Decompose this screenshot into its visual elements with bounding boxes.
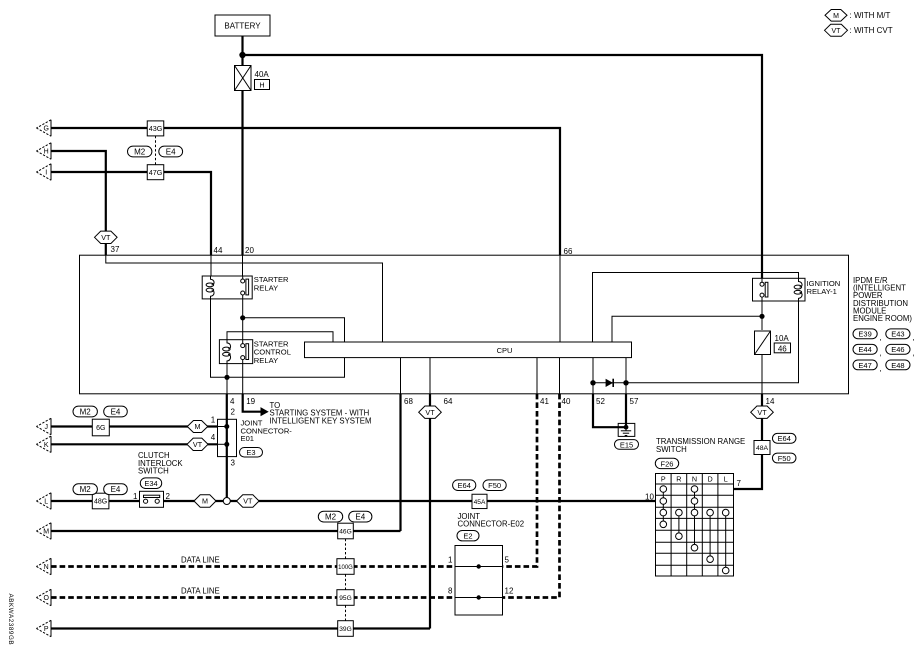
dashed splice chain 46G-100G-95G-39G (345, 539, 347, 621)
svg-text:8: 8 (448, 587, 453, 596)
dashed link 43G-47G (155, 136, 157, 165)
svg-text:95G: 95G (339, 595, 351, 602)
transmission range switch label (656, 437, 745, 454)
IPDM E/R label (853, 276, 912, 323)
svg-text:N: N (44, 564, 49, 571)
svg-text:VT: VT (425, 408, 435, 417)
connector E39 (853, 329, 882, 342)
svg-text:1: 1 (133, 492, 138, 501)
splice 6G (92, 419, 109, 436)
grid contact links (663, 489, 725, 571)
connector arrow L (36, 493, 51, 509)
grid contacts L column (722, 509, 729, 574)
connector E64 (453, 480, 476, 491)
svg-text:E3: E3 (246, 448, 255, 457)
connector arrow O (36, 589, 51, 605)
wire ignition relay coil top box (593, 273, 799, 343)
transmission range switch grid (656, 474, 734, 577)
joint connector E01 (218, 419, 293, 457)
svg-text:P: P (661, 475, 666, 484)
wire starter control relay coil top to CPU (227, 332, 333, 342)
hexagon VT on L wire (237, 495, 259, 507)
svg-text:VT: VT (101, 233, 111, 242)
hexagon M on L wire (194, 495, 216, 507)
svg-text:VT: VT (832, 28, 842, 35)
svg-text:19: 19 (246, 397, 255, 406)
svg-text:M: M (43, 529, 49, 536)
svg-text:SWITCH: SWITCH (656, 445, 687, 454)
connector E2 (457, 531, 479, 541)
connector E15 (615, 440, 639, 450)
connector F50 (772, 453, 796, 463)
hexagon VT on K wire (187, 438, 208, 450)
svg-text:RELAY: RELAY (254, 284, 278, 293)
connector arrow J (36, 418, 51, 434)
connector arrow I (36, 164, 51, 180)
svg-text:ENGINE ROOM): ENGINE ROOM) (853, 314, 912, 323)
grid contacts D column (707, 509, 714, 562)
diode (590, 379, 628, 387)
wire J row (51, 416, 227, 427)
wire pin 41 dashed to E02 pin 5 (503, 358, 550, 567)
svg-text:J: J (44, 424, 48, 431)
svg-text:6G: 6G (96, 425, 105, 432)
splice 48G (92, 493, 109, 509)
wire ignition relay coil bottom to diode node (626, 301, 799, 383)
svg-text:M2: M2 (325, 513, 337, 522)
wire pin 14 to transmission range switch pin 7 (734, 355, 775, 490)
connector F50 (483, 480, 506, 491)
svg-text:H: H (44, 149, 49, 156)
connector arrow M (36, 523, 51, 539)
svg-text:46: 46 (778, 344, 787, 353)
svg-text:43G: 43G (149, 124, 163, 133)
svg-text:M: M (833, 13, 839, 20)
splice 43G (147, 121, 164, 136)
IPDM E/R outer box (80, 255, 849, 394)
wire pin 52 to ground (593, 358, 626, 428)
connector E4 (104, 406, 128, 417)
connector arrow H (36, 143, 51, 159)
hexagon VT on H wire (95, 231, 118, 243)
connector M2 (73, 406, 97, 417)
svg-text:47G: 47G (149, 168, 163, 177)
svg-text:10: 10 (645, 492, 654, 501)
svg-text:P: P (44, 626, 49, 633)
fuse 10A 46 (755, 331, 791, 355)
CPU (305, 342, 632, 358)
wire ignition relay contact to CPU and fuse (612, 301, 765, 342)
legend VT hexagon : WITH CVT (825, 24, 893, 36)
svg-text:DATA LINE: DATA LINE (181, 556, 220, 565)
wire K row (51, 433, 227, 444)
svg-text:14: 14 (766, 397, 775, 406)
svg-text:44: 44 (214, 246, 223, 255)
svg-text:,: , (880, 364, 882, 373)
wire pin 19 to starting system (243, 394, 372, 426)
clutch interlock switch (133, 451, 183, 507)
svg-text:CPU: CPU (497, 346, 513, 355)
splice 48A (754, 441, 770, 455)
wire battery positive bus (239, 36, 762, 278)
svg-text:E39: E39 (858, 330, 871, 339)
svg-text:F50: F50 (488, 481, 501, 490)
battery (215, 15, 270, 36)
svg-text:M: M (195, 422, 201, 431)
wire starter relay contact to node (240, 299, 245, 343)
svg-text:64: 64 (444, 397, 453, 406)
wire node loop to starter relay coil (211, 299, 345, 377)
svg-text:VT: VT (757, 408, 767, 417)
splice 47G (147, 165, 164, 180)
svg-text:40A: 40A (255, 70, 270, 79)
svg-text:37: 37 (111, 245, 120, 254)
connector M2 (318, 511, 342, 522)
svg-text:2: 2 (166, 492, 171, 501)
wire pin 57 to ground (626, 358, 639, 428)
svg-text:48G: 48G (94, 499, 107, 506)
connector arrow K (36, 436, 51, 452)
svg-text:F50: F50 (778, 454, 791, 463)
svg-text:7: 7 (737, 479, 742, 488)
svg-text:: WITH M/T: : WITH M/T (850, 11, 891, 20)
svg-text:CONNECTOR-E02: CONNECTOR-E02 (458, 520, 525, 529)
svg-text:E64: E64 (458, 481, 471, 490)
starter control relay (219, 339, 291, 365)
grid contacts N column (691, 486, 698, 551)
svg-text:M2: M2 (134, 147, 146, 156)
svg-text:DATA LINE: DATA LINE (181, 587, 220, 596)
wire pin 40 dashed to E02 pin 12 (503, 358, 571, 598)
ignition relay (753, 278, 841, 301)
svg-text:R: R (676, 475, 681, 484)
hexagon VT on 14 wire (751, 406, 774, 418)
wire starter control relay contact to pin 19 (242, 364, 244, 394)
svg-text:68: 68 (404, 397, 413, 406)
wire pin 4 to E01 pin 2 (227, 394, 236, 420)
splice 39G (338, 621, 354, 637)
svg-text:4: 4 (211, 433, 216, 442)
svg-text:41: 41 (540, 397, 549, 406)
hexagon VT on 64 wire (419, 406, 442, 418)
svg-text:39G: 39G (339, 626, 351, 633)
wire H row to VT node 37 (51, 151, 383, 342)
splice 45A (472, 494, 487, 508)
wire starter control relay coil to pin 4 (224, 364, 229, 394)
svg-text:2: 2 (231, 408, 236, 417)
svg-text:RELAY-1: RELAY-1 (807, 287, 837, 296)
svg-text:SWITCH: SWITCH (138, 467, 169, 476)
svg-text:M2: M2 (80, 407, 92, 416)
svg-text:: WITH CVT: : WITH CVT (850, 26, 893, 35)
connector arrow G (36, 120, 51, 136)
svg-text:10A: 10A (775, 334, 790, 343)
svg-text:E4: E4 (166, 147, 176, 156)
wire M row to pin 68 (51, 530, 401, 532)
svg-text:L: L (44, 499, 48, 506)
svg-text:46G: 46G (339, 529, 351, 536)
svg-text:VT: VT (243, 497, 253, 506)
grid contacts R column (676, 509, 683, 539)
svg-text:E46: E46 (891, 345, 904, 354)
starter relay (202, 275, 289, 299)
svg-text:,: , (912, 349, 914, 358)
svg-text:BATTERY: BATTERY (224, 22, 261, 31)
svg-text:57: 57 (630, 397, 639, 406)
wire pin 68 from M row (401, 358, 414, 531)
connector E46 (886, 344, 915, 357)
connector E64 (772, 433, 796, 443)
wire E01 pin 3 (227, 457, 236, 498)
svg-text:20: 20 (245, 246, 254, 255)
svg-text:RELAY: RELAY (254, 356, 278, 365)
connector E47 (853, 360, 882, 373)
svg-text:E4: E4 (111, 407, 121, 416)
svg-text:E44: E44 (858, 345, 871, 354)
wire P row to pin 64 (51, 627, 430, 629)
svg-text:ABKWA2389GB: ABKWA2389GB (7, 594, 14, 646)
connector E3 (240, 448, 263, 458)
svg-text:G: G (43, 126, 48, 133)
wire 20 : fusible link to starter relay contact (243, 91, 255, 277)
hexagon M on J wire (187, 421, 208, 433)
svg-text:H: H (259, 83, 264, 90)
svg-text:E2: E2 (463, 532, 472, 541)
connector M2 (128, 146, 152, 157)
joint connector E02 (448, 512, 524, 615)
svg-text:O: O (43, 595, 49, 602)
svg-text:M2: M2 (80, 485, 92, 494)
connector M2 (73, 484, 97, 495)
svg-text:5: 5 (505, 556, 510, 565)
wire pin 64 VT to P row (430, 358, 453, 629)
wire N row data line (51, 556, 455, 567)
wire O row data line (51, 587, 455, 598)
svg-text:N: N (692, 475, 697, 484)
legend M hexagon : WITH M/T (825, 10, 890, 22)
svg-text:L: L (724, 475, 728, 484)
svg-text:,: , (912, 333, 914, 342)
svg-text:E15: E15 (620, 440, 633, 449)
svg-text:100G: 100G (338, 565, 353, 571)
svg-text:E43: E43 (891, 330, 904, 339)
connector E4 (349, 511, 372, 522)
svg-text:48A: 48A (756, 445, 769, 452)
svg-text:E01: E01 (241, 434, 255, 443)
svg-text:1: 1 (211, 416, 216, 425)
svg-text:E47: E47 (858, 361, 871, 370)
splice 95G (337, 590, 354, 606)
wire L row to grid pin 10 (51, 492, 656, 501)
splice 100G (337, 559, 354, 575)
svg-text:INTELLIGENT KEY SYSTEM: INTELLIGENT KEY SYSTEM (270, 416, 372, 425)
fusible link H 40A (235, 66, 270, 91)
connector E48 (886, 360, 910, 370)
svg-text:,: , (880, 349, 882, 358)
connector E4 (104, 484, 128, 495)
connector F26 (655, 458, 678, 468)
ground E15 (618, 423, 635, 436)
svg-text:K: K (44, 442, 49, 449)
svg-text:I: I (45, 170, 47, 177)
connector E4 (159, 146, 183, 157)
svg-text:F26: F26 (661, 459, 674, 468)
svg-text:E34: E34 (144, 479, 157, 488)
svg-text:40: 40 (562, 397, 571, 406)
svg-text:E48: E48 (891, 361, 904, 370)
svg-text:E4: E4 (355, 513, 365, 522)
svg-text:E64: E64 (778, 434, 791, 443)
connector E44 (853, 344, 882, 357)
svg-text:VT: VT (193, 440, 203, 449)
svg-text:1: 1 (448, 556, 453, 565)
svg-text:D: D (707, 475, 712, 484)
svg-text:4: 4 (230, 397, 235, 406)
svg-text:,: , (880, 333, 882, 342)
connector arrow P (36, 620, 51, 636)
connector E34 (140, 478, 161, 489)
splice 46G (338, 523, 354, 539)
svg-text:3: 3 (231, 459, 236, 468)
connector arrow N (36, 558, 51, 574)
wire I row to pin 44 (51, 172, 223, 276)
wire G row to node 66 (51, 128, 573, 342)
svg-text:E4: E4 (111, 485, 121, 494)
connector E43 (886, 329, 915, 342)
svg-text:52: 52 (596, 397, 605, 406)
svg-text:45A: 45A (474, 499, 486, 506)
junction node circle (223, 498, 230, 505)
svg-text:M: M (202, 497, 208, 506)
svg-text:12: 12 (505, 587, 514, 596)
grid contacts P column (660, 486, 667, 528)
